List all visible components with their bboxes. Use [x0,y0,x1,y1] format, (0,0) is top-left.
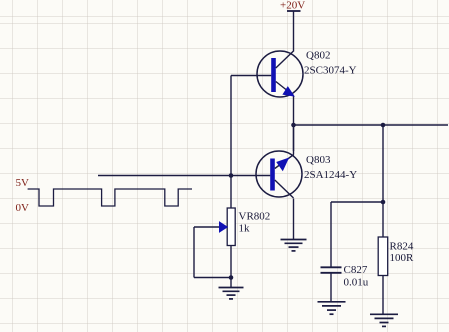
svg-text:+20V: +20V [280,0,305,12]
svg-text:0.01u: 0.01u [344,277,369,289]
svg-text:R824: R824 [390,241,414,253]
svg-text:Q802: Q802 [306,50,330,62]
waveform 5V/0V [28,189,192,206]
node junction output [291,123,296,128]
wire Q803 collector to ground [293,199,295,240]
wire VR802 feedback left [193,227,195,278]
node junction VR-ground [229,275,234,280]
wire node R-C horizontal [331,201,383,203]
svg-text:VR802: VR802 [239,211,271,223]
svg-text:Q803: Q803 [306,154,331,166]
svg-text:5V: 5V [16,177,30,189]
wire Q802 emitter to node [293,96,295,151]
wire node to R824 [382,125,384,237]
wire Q803 base long line [98,175,270,177]
wire Q802 base [231,75,271,77]
wire VR802 feedback bottom [194,277,231,279]
wire output node row [294,124,449,126]
transistor Q802 [257,51,303,98]
svg-text:100R: 100R [390,252,415,264]
ground under C827 [318,302,346,314]
potentiometer VR802 [220,208,236,246]
ground under VR802 [219,288,244,299]
svg-text:0V: 0V [16,202,30,214]
wire VR802 bottom lead [230,246,232,288]
svg-text:2SC3074-Y: 2SC3074-Y [304,65,357,77]
transistor Q803 [256,151,302,198]
wire base column x=231 [230,76,232,209]
node junction R824 top [381,123,386,128]
wire C827 bottom lead [330,274,332,302]
wire R824 to ground [382,276,384,315]
node junction R-C [381,200,386,205]
capacitor C827 [321,267,342,273]
wire +20V to Q802 collector [293,11,295,51]
wire VR802 wiper [194,226,220,228]
svg-text:2SA1244-Y: 2SA1244-Y [304,169,357,181]
resistor R824 [378,237,388,276]
node junction base-VR [229,173,234,178]
svg-text:1k: 1k [239,223,251,235]
wire C827 top lead [330,202,332,267]
ground under Q803 [281,240,307,251]
svg-text:C827: C827 [344,264,368,276]
power +20V bar [287,10,301,12]
wire Q803 emitter to node [293,125,295,155]
ground under R824 [370,314,398,326]
